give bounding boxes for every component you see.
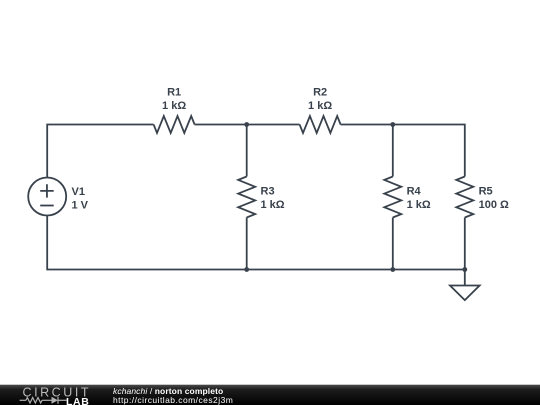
svg-text:1 kΩ: 1 kΩ (308, 100, 332, 112)
svg-text:V1: V1 (72, 186, 85, 198)
label R5 (479, 186, 509, 211)
resistor R4 (384, 177, 401, 218)
resistor R2 (300, 116, 341, 133)
svg-text:LAB: LAB (66, 396, 89, 405)
svg-text:R3: R3 (261, 186, 275, 198)
label V1 (72, 186, 89, 211)
wire R3 top lead (246, 125, 248, 177)
svg-text:R2: R2 (313, 87, 327, 99)
node bottom R5 (462, 267, 467, 272)
footer title text (113, 386, 223, 396)
label R1 (162, 87, 186, 112)
node bottom R4 (390, 267, 395, 272)
wire R3 bottom lead (246, 218, 248, 270)
resistor R1 (154, 116, 195, 133)
svg-text:R4: R4 (407, 186, 422, 198)
wire top between R1 and R2 (195, 124, 300, 126)
footer url text (113, 395, 233, 405)
ground (450, 286, 480, 301)
svg-text:http://circuitlab.com/ces2j3m: http://circuitlab.com/ces2j3m (113, 395, 233, 405)
node bottom R3 (244, 267, 249, 272)
logo diode triangle (52, 397, 59, 404)
logo wire and diode (20, 397, 67, 404)
svg-text:R5: R5 (479, 186, 493, 198)
logo LAB (66, 396, 89, 405)
wire bottom rail (47, 216, 465, 270)
wire ground stub (464, 270, 466, 286)
svg-text:R1: R1 (167, 87, 181, 99)
wire R4 top lead (392, 125, 394, 177)
label R4 (407, 186, 431, 211)
node top R3 (244, 122, 249, 127)
svg-text:1 V: 1 V (72, 199, 89, 211)
resistor R5 (456, 177, 473, 218)
svg-text:1 kΩ: 1 kΩ (162, 100, 186, 112)
label R2 (308, 87, 332, 112)
wire R4 bottom lead (392, 218, 394, 270)
svg-text:100 Ω: 100 Ω (479, 199, 509, 211)
wire top right corner to R5 (341, 125, 465, 177)
resistor R3 (238, 177, 255, 218)
label R3 (261, 186, 285, 211)
node top R4 (390, 122, 395, 127)
logo CIRCUIT (23, 386, 92, 400)
voltage source V1 (28, 178, 66, 216)
wire left + top segment to R1 (47, 125, 153, 178)
svg-text:1 kΩ: 1 kΩ (261, 199, 285, 211)
wire R5 bottom lead (464, 218, 466, 270)
svg-text:1 kΩ: 1 kΩ (407, 199, 431, 211)
